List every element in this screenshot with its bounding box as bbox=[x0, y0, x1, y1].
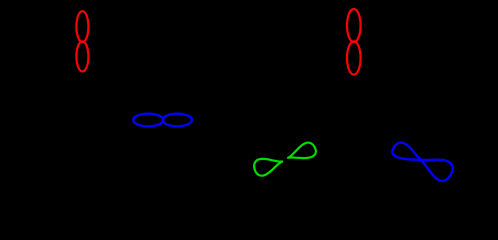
red p-orbital C upper lobe bbox=[347, 9, 361, 42]
blue p-orbital B left lobe bbox=[133, 114, 163, 127]
red p-orbital C lower lobe bbox=[347, 41, 361, 74]
blue p-orbital E lower-right lobe bbox=[420, 160, 453, 181]
green p-orbital D upper-right lobe bbox=[288, 143, 316, 159]
blue p-orbital E upper-left lobe bbox=[392, 143, 422, 161]
green p-orbital D lower-left lobe bbox=[254, 159, 282, 176]
red p-orbital A lower lobe bbox=[76, 41, 88, 71]
blue p-orbital B right lobe bbox=[163, 114, 192, 127]
red p-orbital A upper lobe bbox=[76, 11, 88, 42]
